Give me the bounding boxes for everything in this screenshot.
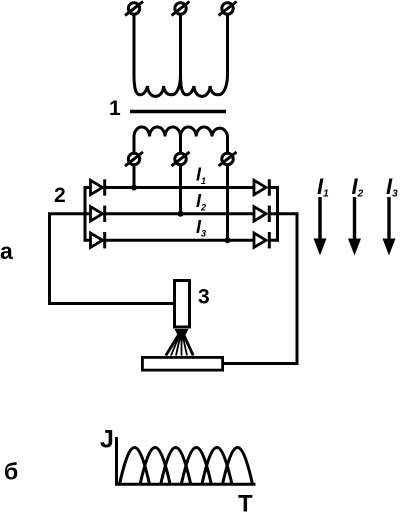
workpiece [142, 357, 222, 370]
terminal top phase A [125, 2, 143, 16]
diode VD5 [254, 206, 269, 222]
svg-text:а: а [0, 238, 13, 264]
arc fan [166, 329, 193, 356]
secondary winding section AB [134, 127, 181, 136]
bus 2 [105, 212, 255, 215]
svg-text:1: 1 [109, 97, 121, 120]
junction dot B [178, 211, 184, 217]
svg-text:I3: I3 [386, 174, 398, 200]
secondary stub C [226, 137, 229, 154]
bus 1 [105, 186, 255, 189]
cathode stub 1 [268, 186, 279, 189]
wire top phase A [133, 14, 136, 74]
graph waveform [120, 448, 253, 485]
diode VD2 [91, 206, 105, 222]
wire top phase B [179, 14, 182, 74]
current arrow I1 [314, 197, 327, 256]
terminal secondary phase A [125, 152, 143, 166]
transformer core 1 [130, 110, 226, 114]
diode VD6 [254, 232, 269, 248]
svg-text:I1: I1 [196, 165, 206, 187]
svg-text:I1: I1 [317, 174, 329, 200]
secondary winding section BC [181, 127, 228, 136]
cathode stub 3 [268, 239, 279, 242]
current arrow I2 [348, 197, 361, 256]
wire positive output right [224, 214, 297, 364]
svg-text:T: T [238, 491, 253, 515]
svg-text:б: б [4, 459, 18, 485]
junction dot A [131, 185, 137, 191]
svg-text:I2: I2 [352, 174, 364, 200]
svg-text:J: J [100, 426, 114, 454]
diode VD1 [91, 179, 105, 195]
terminal secondary phase B [172, 152, 190, 166]
bus 3 [105, 239, 255, 242]
right cathode bus [276, 186, 279, 242]
primary winding section BC [181, 74, 228, 96]
terminal top phase B [172, 2, 190, 16]
anode stub 2 [84, 212, 92, 215]
wire secondary B to bus 2 [179, 165, 182, 214]
svg-text:2: 2 [54, 184, 66, 207]
primary winding section AB [134, 74, 181, 96]
svg-text:I3: I3 [196, 217, 206, 239]
secondary stub B [179, 137, 182, 154]
graph J axis [117, 437, 256, 484]
junction dot C [225, 237, 231, 243]
secondary stub A [133, 137, 136, 154]
wire negative output left [50, 214, 174, 304]
electrode 3 [175, 281, 190, 328]
current arrow I3 [383, 197, 396, 256]
left anode bus [84, 186, 87, 242]
terminal top phase C [219, 2, 237, 16]
svg-text:I2: I2 [196, 191, 206, 213]
wire secondary A to bus 1 [133, 165, 136, 188]
cathode stub 2 [268, 212, 279, 215]
diode VD4 [254, 179, 269, 195]
wire top phase C [226, 14, 229, 74]
anode stub 1 [84, 186, 92, 189]
anode stub 3 [84, 239, 92, 242]
terminal secondary phase C [219, 152, 237, 166]
diode VD3 [91, 232, 105, 248]
svg-text:3: 3 [198, 286, 210, 309]
wire secondary C to bus 3 [226, 165, 229, 241]
